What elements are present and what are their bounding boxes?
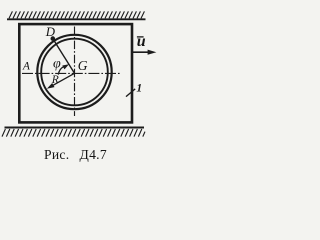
radius arrow R: [50, 73, 74, 87]
ceiling line: [7, 18, 146, 20]
ring outer circle: [37, 35, 111, 109]
radius line G-D: [53, 39, 75, 74]
floor hatching: [2, 129, 145, 137]
horizontal axis (dash-dot): [22, 72, 120, 74]
angle arc arrow phi: [58, 66, 64, 74]
vertical axis (dash-dot): [74, 27, 76, 117]
svg-text:A: A: [22, 61, 31, 73]
svg-text:G: G: [78, 58, 88, 73]
frame body (square): [19, 24, 132, 122]
svg-text:D: D: [45, 25, 56, 39]
point D dot: [51, 36, 56, 41]
ceiling hatching: [9, 11, 144, 18]
svg-text:φ: φ: [53, 57, 61, 72]
svg-text:R: R: [51, 74, 59, 86]
floor line: [5, 127, 145, 129]
velocity arrow u: [132, 51, 150, 53]
leader tick for label 1: [126, 89, 135, 97]
ring inner circle: [41, 39, 108, 106]
svg-text:u: u: [137, 33, 146, 50]
svg-text:1: 1: [136, 82, 142, 94]
